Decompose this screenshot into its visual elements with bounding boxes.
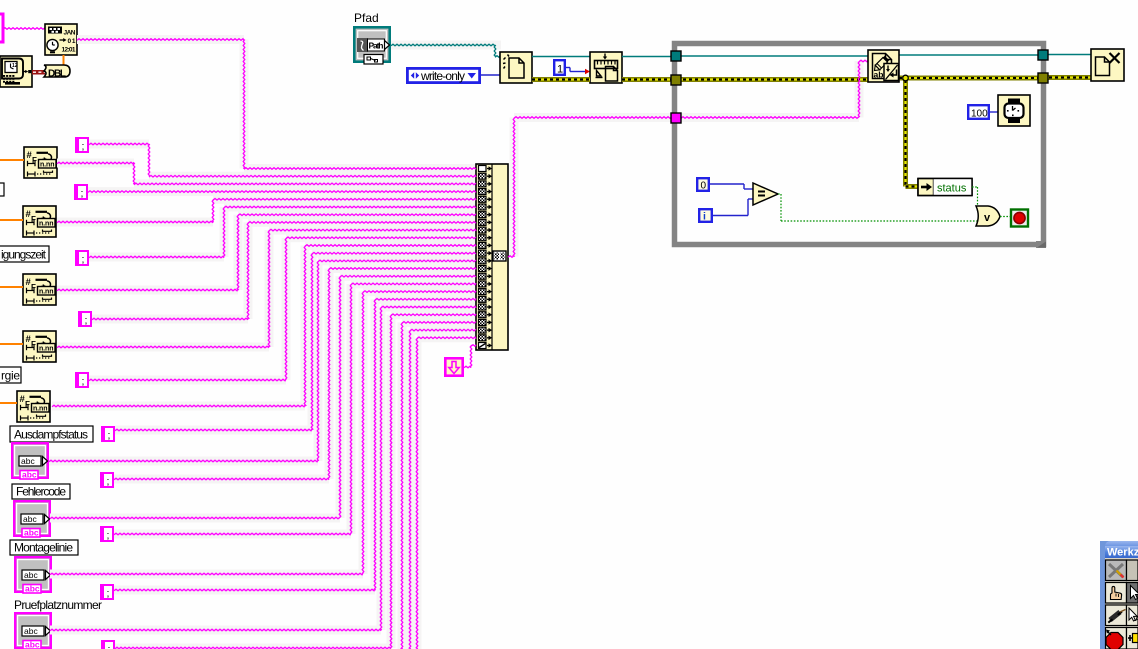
Number To Fractional String node F4	[23, 331, 56, 362]
error wire Set-File-Position to loop	[622, 77, 672, 82]
string control Montagelinie	[14, 556, 52, 594]
svg-text:100: 100	[971, 109, 988, 120]
svg-text:write-only: write-only	[420, 69, 465, 83]
error wire junction dot	[903, 75, 909, 81]
teal refnum wire loop to Close File	[1043, 54, 1091, 56]
svg-text:0: 0	[701, 181, 707, 192]
teal path wire Pfad to Open/Create/Replace	[391, 44, 500, 57]
Number To Fractional String node F2	[23, 206, 56, 237]
wire halo layer (scan artifacts)	[49, 35, 864, 649]
tunnel refnum (left)	[671, 51, 681, 61]
blue wire i to equals	[713, 199, 753, 216]
teal refnum wire Set-File-Position to loop	[622, 56, 672, 58]
blue wire 1 to Set-File-Position	[566, 68, 590, 75]
string constant ";" #3	[75, 250, 89, 266]
error wire inside loop (right)	[899, 76, 1043, 81]
svg-text:abc: abc	[24, 570, 38, 580]
teal refnum wire Open to Set-File-Position	[532, 56, 590, 58]
svg-text:Montagelinie: Montagelinie	[14, 541, 73, 555]
svg-text:n.nn: n.nn	[33, 406, 48, 413]
svg-text:;: ;	[108, 644, 111, 649]
enum constant write-only	[406, 67, 481, 84]
svg-text:Werkz: Werkz	[1107, 547, 1138, 559]
svg-text:ab: ab	[874, 70, 884, 80]
svg-text:abc: abc	[21, 456, 35, 466]
Equal? node	[753, 183, 778, 205]
orange wire Format-Date-Time to DBL	[63, 55, 65, 66]
svg-text:;: ;	[82, 376, 85, 388]
svg-text:abc: abc	[24, 626, 38, 636]
orange numeric wire into F3	[0, 286, 23, 288]
while loop frame	[675, 44, 1047, 249]
tunnel refnum (right)	[1038, 50, 1048, 60]
wire ";"4 to concat row8	[92, 222, 476, 320]
svg-text:;: ;	[107, 588, 110, 600]
wire ";"10 to concat row20	[115, 314, 476, 649]
Open/Create/Replace File node	[500, 52, 532, 83]
wire off-screen source to concat row22	[409, 329, 476, 649]
error wire loop to Close File	[1043, 75, 1091, 80]
svg-text:abc: abc	[25, 584, 40, 594]
svg-text:;: ;	[82, 254, 85, 266]
svg-text:;: ;	[107, 530, 110, 542]
wire F2 to concat row5	[57, 199, 476, 223]
wire ";"1 to concat row2	[89, 143, 476, 177]
Werkzeuge palette window	[1100, 541, 1138, 649]
path control Pfad	[353, 26, 391, 64]
teal refnum wire inside loop	[677, 55, 1043, 56]
string constant ";" #1	[75, 137, 89, 153]
svg-text:12:01: 12:01	[62, 46, 76, 53]
string constant ";" #2	[74, 184, 88, 200]
Set File Position node	[590, 52, 622, 83]
orange numeric wire into F5	[0, 402, 17, 404]
Unbundle By Name status	[918, 179, 972, 196]
blue wire write-only to Open/Create/Replace	[481, 74, 500, 76]
error wire inside loop (left)	[677, 77, 868, 82]
blue wire 0 to equals	[710, 184, 753, 189]
svg-text:Path: Path	[369, 40, 384, 50]
wire F4 to concat row9	[57, 229, 476, 348]
svg-text:12: 12	[12, 63, 18, 69]
wire ";"2 to concat row4	[88, 191, 476, 193]
string constant (partial, off-screen left)	[0, 14, 3, 42]
svg-text:;: ;	[107, 476, 110, 488]
svg-text:JAN: JAN	[64, 30, 76, 37]
tunnel string (left)	[671, 113, 681, 123]
svg-text:n.nn: n.nn	[40, 162, 55, 169]
wire F1 to concat row3	[57, 162, 476, 185]
svg-text:Fehlercode: Fehlercode	[16, 485, 66, 499]
wire End-of-Line to concatenate	[464, 345, 476, 368]
wire Format-Date-Time to concat row1	[77, 39, 476, 170]
orange numeric wire into F4	[0, 343, 23, 345]
End of Line constant	[444, 357, 464, 377]
label (partial) igungszeit	[0, 246, 49, 262]
svg-text:;: ;	[82, 141, 85, 153]
wire string-constant to Format-Date-Time	[3, 28, 46, 30]
error wire Open to Set-File-Position	[532, 77, 590, 82]
Close File node	[1091, 49, 1124, 81]
wire F3 to concat row7	[57, 214, 476, 291]
svg-text:rgie: rgie	[1, 369, 20, 383]
svg-text:v: v	[984, 212, 991, 224]
string constant ";" #9	[100, 584, 114, 600]
string constant ";" #10	[101, 640, 115, 649]
wire ";"6 to concat row12	[115, 252, 476, 430]
wire off-screen source to concat row21	[401, 322, 476, 649]
wire off-screen source to concat row23	[416, 337, 476, 649]
svg-text:;: ;	[85, 315, 88, 327]
svg-text:;: ;	[108, 430, 111, 442]
wire string-control-4 to concat row19	[50, 306, 476, 631]
svg-text:;: ;	[81, 188, 84, 200]
boolean wire Or to stop terminal	[1000, 216, 1012, 218]
wire string-control-3 to concat row17	[50, 291, 476, 575]
wire ";"8 to concat row16	[114, 283, 476, 535]
svg-text:1: 1	[557, 64, 563, 76]
svg-text:Ausdampfstatus: Ausdampfstatus	[14, 428, 88, 442]
Get Date/Time In Seconds node	[0, 56, 32, 87]
tunnel error (left)	[671, 75, 681, 85]
Concatenate Strings node	[476, 164, 508, 350]
numeric constant 0	[696, 177, 710, 192]
error wire branch down to Unbundle	[903, 80, 918, 189]
orange numeric wire into F2	[0, 219, 23, 221]
string wire tunnel to Write-Text-File	[677, 60, 868, 118]
stop button terminal	[1011, 210, 1028, 227]
Werkzeuge palette buttons	[1105, 558, 1138, 649]
wire concatenated string to while-loop tunnel	[508, 117, 672, 258]
svg-text:abc: abc	[25, 640, 40, 649]
Or node	[976, 206, 1000, 226]
label Montagelinie	[10, 540, 78, 555]
label Ausdampfstatus	[10, 426, 93, 442]
wire F5 to concat row11	[52, 245, 476, 407]
orange numeric wire into F1	[0, 159, 24, 161]
numeric constant 100	[967, 104, 990, 120]
svg-text:abc: abc	[22, 470, 37, 480]
string constant ";" #7	[100, 472, 114, 488]
string constant ";" #5	[75, 372, 89, 388]
svg-text:igungszeit: igungszeit	[1, 248, 47, 262]
svg-text:abc: abc	[24, 528, 39, 538]
wire ";"7 to concat row14	[114, 268, 476, 480]
svg-text:i: i	[703, 211, 706, 223]
wire ";"3 to concat row6	[89, 206, 476, 258]
boolean wire status to Or	[972, 187, 978, 211]
string control Ausdampfstatus	[11, 442, 49, 480]
wire ";"5 to concat row10	[89, 237, 476, 381]
numeric constant 1	[553, 59, 566, 76]
svg-text:DBL: DBL	[48, 68, 66, 79]
Wait (ms) node	[998, 95, 1030, 126]
timestamp wire Get-Date-Time to DBL	[32, 70, 45, 75]
blue wire 100 to Wait	[990, 111, 998, 113]
Write to Text File node	[868, 50, 899, 82]
Number To Fractional String node F1	[24, 147, 57, 178]
label Fehlercode	[12, 484, 70, 499]
string control Fehlercode	[13, 500, 51, 538]
wire ";"9 to concat row18	[114, 299, 476, 591]
DBL conversion node	[44, 65, 70, 79]
svg-text:n.nn: n.nn	[39, 346, 54, 353]
string control Pruefplatznummer	[14, 612, 52, 649]
wire string-control-1 to concat row13	[49, 260, 476, 462]
tunnel error (right)	[1038, 73, 1048, 83]
wire string-control-2 to concat row15	[50, 275, 476, 518]
Format Date/Time String node	[45, 24, 77, 55]
svg-text:abc: abc	[23, 514, 37, 524]
svg-text:01: 01	[68, 38, 76, 45]
label Pfad	[354, 11, 379, 25]
svg-text:Pfad: Pfad	[354, 11, 379, 25]
string constant ";" #8	[100, 526, 114, 542]
svg-text:n.nn: n.nn	[39, 221, 54, 228]
boolean wire Equal to Or	[778, 194, 977, 221]
string constant ";" #4	[78, 311, 92, 327]
Number To Fractional String node F5	[17, 391, 50, 422]
svg-text:n.nn: n.nn	[39, 289, 54, 296]
label (partial) rgie	[0, 367, 21, 383]
svg-text:status: status	[937, 183, 967, 195]
svg-text:Pruefplatznummer: Pruefplatznummer	[14, 598, 102, 612]
string constant ";" #6	[101, 426, 115, 442]
label Pruefplatznummer	[14, 598, 102, 612]
Number To Fractional String node F3	[23, 274, 56, 305]
iteration terminal i	[698, 208, 713, 223]
label fragment ]	[0, 183, 4, 196]
